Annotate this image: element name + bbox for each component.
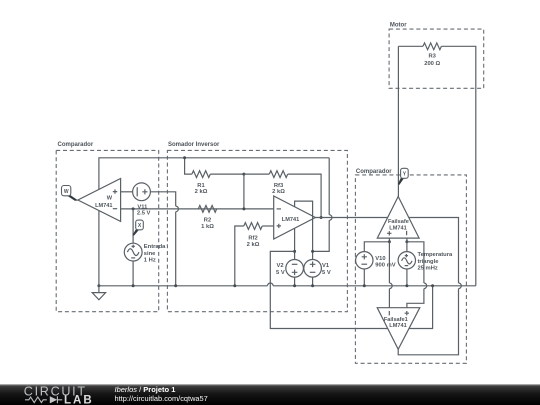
junction node xyxy=(320,216,323,219)
svg-text:R2: R2 xyxy=(204,218,211,224)
wire: Rf2 left lead down to rail xyxy=(235,226,244,286)
flag W (output of left comparator) xyxy=(66,195,78,201)
wire: Rf2 to somador + input xyxy=(262,225,274,227)
ground rail (bottom horizontal), bump over x=270.3 vertical xyxy=(99,285,476,287)
junction node xyxy=(293,284,296,287)
junction node xyxy=(311,250,314,253)
wire: X node vertical to sine source xyxy=(132,209,134,243)
op-amp U-Somador (LM741, pointing right) xyxy=(274,196,316,239)
svg-text:V1: V1 xyxy=(322,263,330,269)
svg-text:2 kΩ: 2 kΩ xyxy=(195,189,208,195)
svg-text:W: W xyxy=(64,189,69,195)
resistor R3 200 xyxy=(423,43,441,50)
svg-text:W: W xyxy=(107,196,113,202)
Failsafe input stubs xyxy=(389,238,407,242)
junction node xyxy=(293,250,296,253)
svg-text:LM741: LM741 xyxy=(95,203,112,209)
dashed box: Somador Inversor xyxy=(167,150,347,311)
source V2 5V xyxy=(286,260,304,278)
wire: Temperatura bottom to rail xyxy=(406,269,408,286)
svg-text:Rf2: Rf2 xyxy=(248,236,257,242)
junction node xyxy=(132,207,135,210)
wire: Failsafe - node right/down to Failsafe1 + input (hops rail) xyxy=(407,242,424,308)
svg-text:2 kΩ: 2 kΩ xyxy=(247,242,260,248)
battery V11 xyxy=(133,183,151,201)
wire: + input to V10 xyxy=(364,242,389,252)
wire: W + input to battery V11 xyxy=(121,191,133,193)
wire: junction down to - input line xyxy=(243,174,245,209)
junction node xyxy=(405,240,408,243)
wire: Failsafe + node down to Failsafe1 - input (hops rail) xyxy=(388,242,390,308)
svg-text:LAB: LAB xyxy=(64,394,94,405)
wire: somador output to Failsafe left supply pin xyxy=(315,217,387,219)
svg-text:5 V: 5 V xyxy=(322,270,331,276)
svg-text:Somador Inversor: Somador Inversor xyxy=(168,142,220,148)
wire: Failsafe1 output loop to Failsafe right supply pin (hops rail) xyxy=(398,218,458,355)
resistor Rf3 2k xyxy=(269,171,287,178)
svg-text:900 mV: 900 mV xyxy=(375,263,395,269)
wire: Rf3 right to output node xyxy=(288,174,321,217)
source V10 900mV xyxy=(356,252,373,269)
op-amp W + input sign xyxy=(113,189,117,193)
svg-text:R3: R3 xyxy=(428,53,436,59)
svg-text:LM741: LM741 xyxy=(282,217,299,223)
wire: R1 to junction xyxy=(210,173,244,175)
svg-text:triangle: triangle xyxy=(418,259,440,265)
wire: motor left wire down to Failsafe output apex xyxy=(397,46,399,196)
op-amp U-Failsafe (LM741, pointing up) xyxy=(377,197,419,239)
wire: V11 right terminal down to rail xyxy=(150,192,175,286)
source V-Temperatura (triangle 25 mHz) xyxy=(398,252,415,269)
wire: V10 bottom to rail xyxy=(363,269,365,286)
svg-text:200 Ω: 200 Ω xyxy=(424,61,440,67)
flag X (Entrada node) xyxy=(133,229,140,236)
op-amp W - input sign xyxy=(113,208,117,210)
junction node xyxy=(242,173,245,176)
wire: W - input line to R2 and somador - input xyxy=(121,208,274,210)
resistor R1 2k xyxy=(192,171,210,178)
wire: Rf3 row xyxy=(244,173,269,175)
svg-text:2.5 V: 2.5 V xyxy=(137,211,151,217)
source V-Entrada (sine 1 Hz) xyxy=(124,243,142,261)
svg-text:sine: sine xyxy=(144,251,156,257)
dashed box: Comparador (right) xyxy=(355,175,466,363)
svg-text:Failsafe1: Failsafe1 xyxy=(384,317,408,323)
junction node xyxy=(97,284,100,287)
wire: V2 top node left/down loop to Failsafe1 left supply xyxy=(270,251,387,328)
junction node xyxy=(311,284,314,287)
svg-text:Comparador: Comparador xyxy=(356,169,392,175)
svg-text:Motor: Motor xyxy=(390,23,407,29)
svg-text:Rf3: Rf3 xyxy=(274,183,284,189)
op-amp U-Failsafe1 (LM741, pointing down) xyxy=(377,308,420,350)
svg-text:LM741: LM741 xyxy=(389,323,406,329)
ground symbol xyxy=(92,286,105,300)
dashed box: Comparador (left) xyxy=(56,150,159,311)
junction node xyxy=(431,284,434,287)
dashed box: Motor xyxy=(389,29,484,88)
svg-text:R1: R1 xyxy=(197,183,205,189)
wire: sine source bottom to rail xyxy=(132,261,134,286)
wire: Failsafe1 right supply pin to rail xyxy=(409,286,432,329)
junction node xyxy=(174,284,177,287)
wire: - input down to Temperatura source xyxy=(406,242,408,252)
wire: V2 bottom to rail xyxy=(294,277,296,286)
svg-text:V2: V2 xyxy=(277,263,284,269)
svg-text:V11: V11 xyxy=(137,204,148,210)
junction node xyxy=(233,284,236,287)
junction node xyxy=(242,207,245,210)
flag Y (Failsafe output node) xyxy=(398,178,404,185)
svg-text:Failsafe: Failsafe xyxy=(388,219,409,225)
wire: left op-amp V+ supply loop top xyxy=(99,158,329,190)
wire: left op-amp V- supply to ground rail xyxy=(98,211,100,286)
svg-text:Iberlos / Projeto 1: Iberlos / Projeto 1 xyxy=(115,385,176,394)
resistor R2 1k (on - input line) xyxy=(198,206,216,213)
junction node xyxy=(363,284,366,287)
wire: V1 bottom to rail xyxy=(312,277,314,286)
junction node xyxy=(183,156,186,159)
svg-text:1 Hz: 1 Hz xyxy=(144,257,156,263)
junction node xyxy=(132,284,135,287)
svg-text:1 kΩ: 1 kΩ xyxy=(201,224,214,230)
junction node xyxy=(388,240,391,243)
svg-text:2 kΩ: 2 kΩ xyxy=(272,189,285,195)
svg-text:Comparador: Comparador xyxy=(58,142,94,148)
svg-text:Temperatura: Temperatura xyxy=(418,252,453,258)
wire: top wire junction down to R1 xyxy=(185,158,192,174)
svg-text:http://circuitlab.com/cqtwa57: http://circuitlab.com/cqtwa57 xyxy=(115,394,208,403)
svg-text:V10: V10 xyxy=(375,256,385,262)
svg-text:5 V: 5 V xyxy=(276,270,285,276)
svg-text:LM741: LM741 xyxy=(389,226,406,232)
svg-text:Entrada: Entrada xyxy=(144,244,166,250)
source V1 5V xyxy=(304,260,322,278)
svg-text:25 mHz: 25 mHz xyxy=(418,266,438,272)
wire: supply loop right vertical (hops output wire) xyxy=(313,158,330,252)
resistor Rf2 2k xyxy=(244,223,262,230)
somador V- supply pin down to V2 xyxy=(294,228,296,259)
wire: R3 right down to rail end xyxy=(441,46,475,285)
junction node xyxy=(405,284,408,287)
op-amp U-W (LM741, pointing left) xyxy=(78,179,121,222)
wire: motor top left xyxy=(398,45,423,47)
somador V+ supply pin routing to V1 xyxy=(295,201,313,259)
